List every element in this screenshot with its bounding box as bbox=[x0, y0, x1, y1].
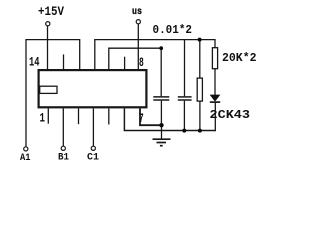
svg-text:7: 7 bbox=[139, 112, 144, 126]
pin 3 stub bbox=[78, 109, 80, 125]
wire +15V terminal to pin 14 bbox=[47, 26, 49, 70]
terminal A1 circle bbox=[24, 147, 28, 151]
svg-text:20K*2: 20K*2 bbox=[222, 51, 257, 65]
wire pin 2 to B1 bbox=[62, 109, 64, 147]
svg-text:8: 8 bbox=[139, 56, 144, 70]
svg-text:1: 1 bbox=[40, 112, 46, 126]
junction node C2/bus bbox=[182, 129, 186, 133]
svg-text:0.01*2: 0.01*2 bbox=[153, 23, 193, 37]
wire junction to resistor R2 bbox=[199, 40, 201, 79]
wire diode to ground bus bbox=[214, 103, 216, 132]
junction node pin7/ground bbox=[159, 123, 163, 127]
svg-text:B1: B1 bbox=[58, 152, 69, 164]
diode VD 2CK43 bbox=[210, 95, 221, 102]
capacitor C2 plates 0.01 bbox=[178, 96, 192, 98]
capacitor C1 plates 0.01 bbox=[153, 96, 169, 98]
pin 5 stub bbox=[108, 109, 110, 125]
resistor R1 20K bbox=[212, 48, 217, 69]
svg-text:14: 14 bbox=[29, 56, 40, 70]
ground symbol bbox=[161, 125, 163, 139]
terminal C1 circle bbox=[91, 146, 95, 150]
wire inner box: pin 10 up, across to node bbox=[109, 48, 161, 70]
pin 1 stub bbox=[47, 109, 49, 124]
junction node inner box bbox=[159, 46, 163, 50]
wire pin 4 to C1 bbox=[92, 109, 94, 147]
svg-text:A1: A1 bbox=[20, 152, 31, 164]
wire left box: A1 up, across top, down to pin 12 bbox=[26, 40, 80, 147]
svg-text:C1: C1 bbox=[87, 152, 99, 164]
ground bus wire bbox=[124, 109, 215, 131]
wire capacitor C2 to ground bus bbox=[183, 101, 185, 131]
pin 13 stub bbox=[63, 54, 65, 69]
wire us terminal to pin 8 bbox=[137, 24, 139, 70]
svg-text:+15V: +15V bbox=[38, 4, 64, 19]
IC U1 body bbox=[39, 70, 147, 107]
wire capacitor C1 to node at pin7 wire bbox=[160, 101, 162, 126]
svg-text:2CK43: 2CK43 bbox=[210, 109, 251, 122]
wire resistor R2 to ground bus bbox=[199, 101, 201, 131]
wire resistor R1 to diode bbox=[214, 69, 216, 96]
wire node down to capacitor C1 bbox=[160, 48, 162, 96]
svg-text:us: us bbox=[132, 7, 142, 18]
junction node R2/bus bbox=[198, 129, 202, 133]
wire top to capacitor C2 bbox=[184, 40, 186, 97]
terminal us circle bbox=[136, 20, 140, 24]
terminal B1 circle bbox=[61, 146, 65, 150]
junction node on top wire bbox=[198, 38, 202, 42]
resistor R2 20K bbox=[197, 78, 202, 101]
IC notch mark bbox=[40, 86, 57, 93]
wire pin 7 to ground node bbox=[140, 109, 162, 126]
power terminal +15V circle bbox=[46, 22, 50, 26]
wire top right: pin 11 up, across to resistor R1 bbox=[95, 40, 215, 70]
pin 9 stub bbox=[124, 57, 126, 70]
